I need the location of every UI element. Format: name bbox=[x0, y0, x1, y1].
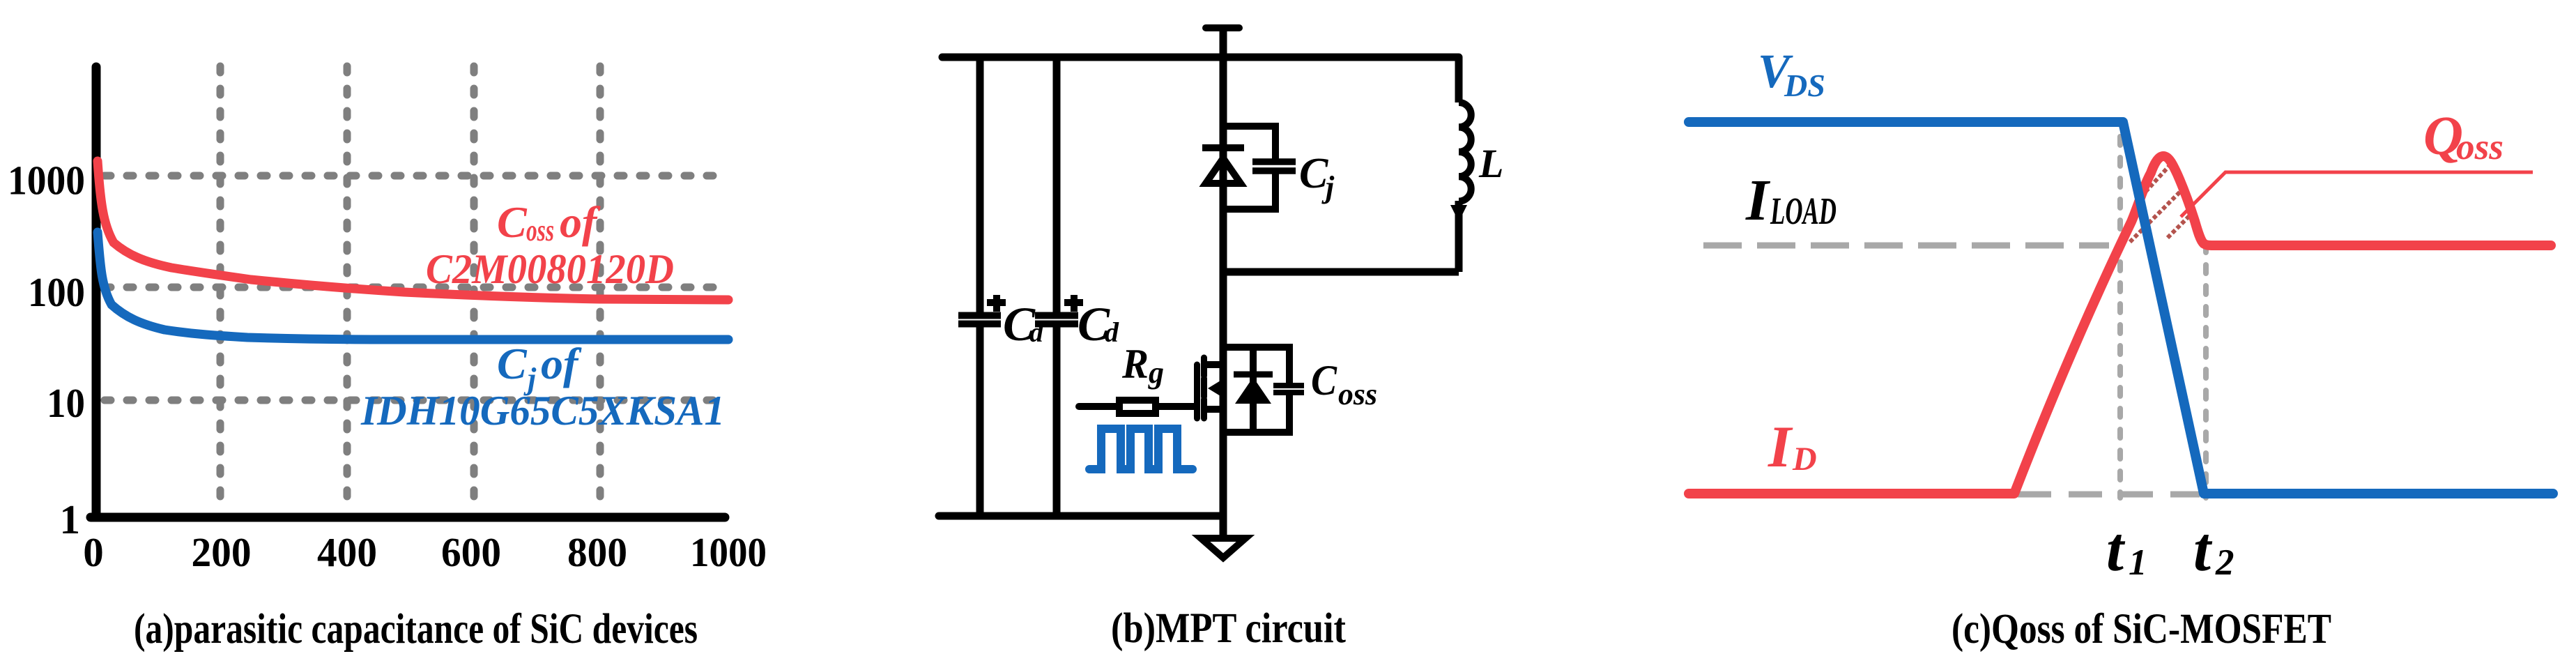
wire: right vertical above inductor bbox=[1455, 57, 1463, 102]
svg-text:1: 1 bbox=[60, 496, 81, 542]
vertical gridline 200 bbox=[217, 66, 224, 512]
ILOAD dashed level bbox=[1703, 243, 2109, 249]
supply bar bbox=[1206, 24, 1239, 31]
horizontal gridline 100 bbox=[105, 284, 726, 291]
body diode D2 cathode bar bbox=[1234, 372, 1273, 378]
svg-text:I: I bbox=[1745, 168, 1771, 233]
red curve Coss of C2M0080120D bbox=[98, 161, 728, 300]
capacitor Cj plates bbox=[1252, 158, 1296, 165]
transistor Q1 gate bar bbox=[1194, 365, 1200, 418]
transistor Q1 drain bar bbox=[1204, 361, 1223, 368]
y axis bbox=[92, 67, 101, 517]
svg-text:L: L bbox=[1478, 141, 1503, 186]
vertical gridline 600 bbox=[470, 66, 478, 512]
svg-text:100: 100 bbox=[28, 269, 85, 315]
wire: left vertical upper bbox=[976, 57, 984, 312]
capacitor Coss plates bbox=[1273, 383, 1304, 388]
wire: Cj branch top bbox=[1223, 126, 1275, 160]
svg-text:oss: oss bbox=[526, 213, 554, 248]
svg-text:800: 800 bbox=[567, 529, 627, 575]
blue curve Cj of IDH10G65C5XKSA1 bbox=[98, 232, 728, 340]
svg-text:1000: 1000 bbox=[690, 529, 767, 575]
inductor L coil bbox=[1459, 102, 1471, 201]
svg-text:of: of bbox=[560, 197, 601, 247]
wire: left vertical lower bbox=[976, 327, 984, 516]
wire: Coss loop bottom bbox=[1223, 395, 1289, 432]
svg-text:1: 1 bbox=[2129, 542, 2147, 583]
svg-text:oss: oss bbox=[1338, 377, 1377, 411]
svg-text:of: of bbox=[541, 339, 582, 388]
svg-text:200: 200 bbox=[192, 529, 252, 575]
vertical gridline 400 bbox=[344, 66, 351, 512]
svg-text:400: 400 bbox=[317, 529, 377, 575]
diode D1 (freewheeling) cathode bar bbox=[1202, 144, 1244, 151]
thin Qoss callout line bbox=[2181, 172, 2533, 217]
transistor Q1 body arrow bbox=[1216, 386, 1223, 392]
svg-text:t: t bbox=[2106, 515, 2126, 584]
inductor current arrow bbox=[1450, 205, 1467, 222]
svg-text:(a)parasitic capacitance of Si: (a)parasitic capacitance of SiC devices bbox=[134, 606, 698, 653]
horizontal gridline 1000 bbox=[105, 172, 726, 180]
svg-text:2: 2 bbox=[2215, 542, 2234, 583]
capacitor Cd (right) plus sign bbox=[1064, 299, 1083, 306]
wire: right vertical below inductor bbox=[1455, 201, 1463, 272]
svg-text:oss: oss bbox=[2456, 127, 2504, 167]
svg-text:g: g bbox=[1148, 356, 1164, 390]
t2 dashed vertical bbox=[2203, 244, 2209, 498]
svg-text:t: t bbox=[2193, 515, 2213, 584]
resistor Rg bbox=[1119, 400, 1156, 413]
vertical gridline 800 bbox=[597, 66, 604, 512]
red ID waveform bbox=[1689, 156, 2551, 494]
wire: Coss loop top bbox=[1223, 347, 1289, 383]
wire: second vertical lower bbox=[1053, 327, 1061, 516]
svg-text:I: I bbox=[1768, 414, 1793, 480]
svg-text:0: 0 bbox=[83, 529, 104, 575]
svg-text:10: 10 bbox=[47, 380, 85, 426]
x axis bbox=[91, 513, 725, 522]
svg-text:C: C bbox=[497, 197, 528, 247]
svg-text:1000: 1000 bbox=[8, 158, 85, 204]
svg-text:C: C bbox=[1311, 358, 1337, 404]
diode D1 triangle bbox=[1206, 158, 1241, 183]
svg-text:(c)Qoss of SiC-MOSFET: (c)Qoss of SiC-MOSFET bbox=[1952, 606, 2331, 653]
svg-text:IDH10G65C5XKSA1: IDH10G65C5XKSA1 bbox=[360, 388, 725, 434]
svg-text:C: C bbox=[1299, 150, 1328, 197]
wire: Cj branch bottom bbox=[1223, 174, 1275, 209]
blue VDS waveform bbox=[1689, 122, 2553, 494]
body diode D2 triangle bbox=[1235, 377, 1271, 404]
svg-text:LOAD: LOAD bbox=[1770, 190, 1837, 232]
capacitor Cd (right) plates bbox=[1035, 312, 1078, 319]
svg-text:D: D bbox=[1792, 441, 1817, 478]
gate drive square wave bbox=[1089, 429, 1193, 469]
wire: bottom rail bbox=[939, 512, 1220, 520]
Qoss hatch lines bbox=[2130, 163, 2189, 242]
transistor Q1 source bar bbox=[1204, 406, 1223, 413]
wire: second vertical upper bbox=[1053, 57, 1061, 312]
svg-text:DS: DS bbox=[1784, 68, 1825, 103]
svg-text:d: d bbox=[1105, 317, 1119, 348]
svg-text:d: d bbox=[1029, 317, 1044, 348]
svg-text:C: C bbox=[497, 339, 528, 388]
horizontal gridline 10 bbox=[105, 397, 726, 404]
capacitor Cd (left) plus sign bbox=[987, 299, 1006, 306]
wire: return from inductor to mid node bbox=[1223, 268, 1459, 276]
wire: gate wire bbox=[1079, 403, 1194, 410]
wire: top rail bbox=[942, 54, 1459, 61]
svg-text:600: 600 bbox=[441, 529, 501, 575]
svg-text:C2M0080120D: C2M0080120D bbox=[426, 246, 674, 292]
transistor Q1 channel segments bbox=[1201, 358, 1207, 376]
body diode D2 line bbox=[1250, 347, 1257, 432]
ground bbox=[1201, 538, 1245, 558]
wire: middle vertical (supply to ground) bbox=[1220, 28, 1227, 538]
svg-text:R: R bbox=[1121, 341, 1149, 387]
t1 dashed vertical bbox=[2117, 137, 2123, 498]
zero level dashed bbox=[2018, 492, 2200, 498]
svg-text:(b)MPT circuit: (b)MPT circuit bbox=[1111, 605, 1347, 652]
capacitor Cd (left) plates bbox=[958, 312, 1001, 319]
